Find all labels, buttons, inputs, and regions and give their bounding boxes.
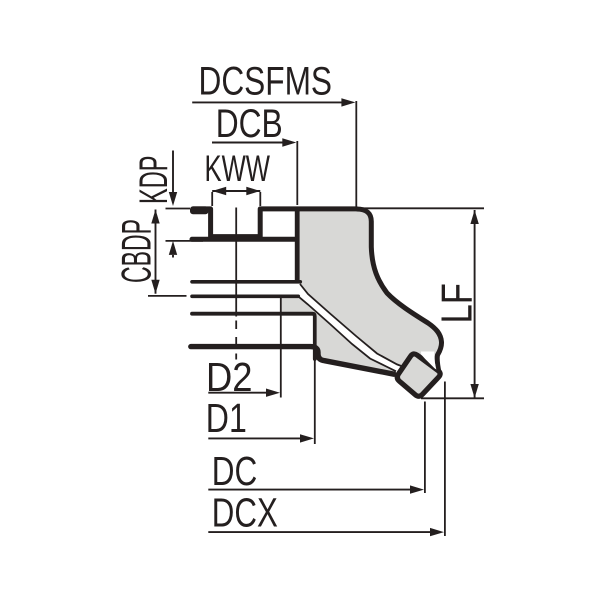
DC dimension line xyxy=(208,489,411,491)
DC extension line xyxy=(424,402,426,494)
cutter body outline (top face, right edge, bulge) xyxy=(357,209,442,373)
DCX arrowhead xyxy=(430,528,444,536)
D1 arrowhead xyxy=(300,434,314,442)
keyway / top-face profile xyxy=(193,209,357,237)
KDP lower extension line xyxy=(166,240,204,242)
DCB arrowhead xyxy=(282,138,296,146)
KDP lower arrowhead (points up) xyxy=(169,241,177,255)
CBDP dimension line xyxy=(155,210,157,294)
LF bottom arrowhead (points down) xyxy=(470,384,478,398)
centerline dashes xyxy=(235,321,237,360)
LF top arrowhead (points up) xyxy=(470,210,478,224)
KWW left arrowhead xyxy=(212,187,226,195)
pocket notch (white gap between body edge and insert) xyxy=(421,352,436,370)
svg-text:KDP: KDP xyxy=(132,156,176,205)
svg-text:DCX: DCX xyxy=(212,490,278,536)
svg-text:DC: DC xyxy=(212,448,257,494)
shank bottom line with corner to insert xyxy=(191,347,394,375)
cutter body fill xyxy=(297,209,441,373)
KWW dimension line xyxy=(212,190,260,192)
D2 dimension line xyxy=(208,392,267,394)
left tab (solid stub) xyxy=(190,206,209,214)
DC arrowhead xyxy=(410,485,424,493)
CBDP bottom extension line xyxy=(148,295,187,297)
cutting insert (rounded diamond) xyxy=(397,354,440,396)
seat band upper edge xyxy=(300,284,407,368)
LF bottom extension line xyxy=(421,397,484,399)
D1 extension line xyxy=(314,358,316,444)
LF top extension line xyxy=(357,207,484,209)
D1 bore line with corner down xyxy=(192,314,315,359)
flange face line xyxy=(192,237,297,242)
DCSFMS dimension line xyxy=(192,101,342,103)
svg-text:D1: D1 xyxy=(206,395,247,441)
KDP upper arrowhead (points down) xyxy=(169,192,177,206)
DCB extension line xyxy=(296,141,298,205)
counterbore bottom line xyxy=(192,280,300,284)
insert seat gap (white band) xyxy=(297,284,409,375)
D2 arrowhead xyxy=(266,389,280,397)
svg-text:KWW: KWW xyxy=(205,148,271,189)
svg-text:LF: LF xyxy=(434,283,482,324)
D1 dimension line xyxy=(208,437,301,439)
centerline solid part xyxy=(235,208,237,317)
svg-text:CBDP: CBDP xyxy=(113,219,160,283)
DCX dimension line xyxy=(208,531,431,533)
svg-text:DCB: DCB xyxy=(216,102,283,146)
seat band lower edge xyxy=(297,296,396,372)
body lower lip fill (grey wedge under insert seat) xyxy=(281,295,397,373)
svg-text:DCSFMS: DCSFMS xyxy=(199,59,333,103)
KDP upper extension line xyxy=(166,208,191,210)
KWW left extension line xyxy=(211,192,213,206)
bore step line xyxy=(192,294,298,298)
CBDP top arrowhead (points up) xyxy=(151,210,159,224)
DCB dimension line xyxy=(212,142,283,144)
svg-text:D2: D2 xyxy=(206,354,253,400)
KDP dimension line upper xyxy=(172,151,174,193)
body left edge xyxy=(295,207,300,283)
LF dimension line xyxy=(474,210,476,398)
KDP dimension line lower tail xyxy=(172,255,174,258)
CBDP bottom arrowhead (points down) xyxy=(151,280,159,294)
KWW right arrowhead xyxy=(246,187,260,195)
D2 extension line xyxy=(280,295,282,398)
KWW right extension line xyxy=(259,192,261,206)
DCX extension line xyxy=(444,382,446,537)
DCSFMS extension line xyxy=(355,101,357,207)
DCSFMS arrowhead xyxy=(341,98,355,106)
